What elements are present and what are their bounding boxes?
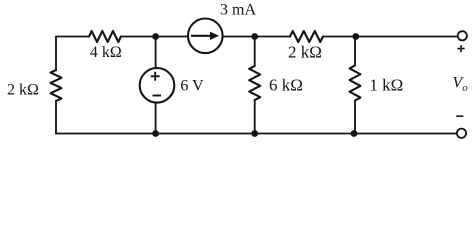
svg-text:1 kΩ: 1 kΩ [369, 76, 403, 95]
svg-text:6 kΩ: 6 kΩ [269, 76, 303, 95]
svg-text:2 kΩ: 2 kΩ [288, 43, 322, 62]
svg-text:4 kΩ: 4 kΩ [90, 44, 122, 61]
svg-text:6 V: 6 V [180, 78, 204, 95]
svg-text:3 mA: 3 mA [220, 2, 256, 19]
svg-text:2 kΩ: 2 kΩ [7, 82, 39, 99]
svg-text:Vo: Vo [453, 75, 469, 95]
